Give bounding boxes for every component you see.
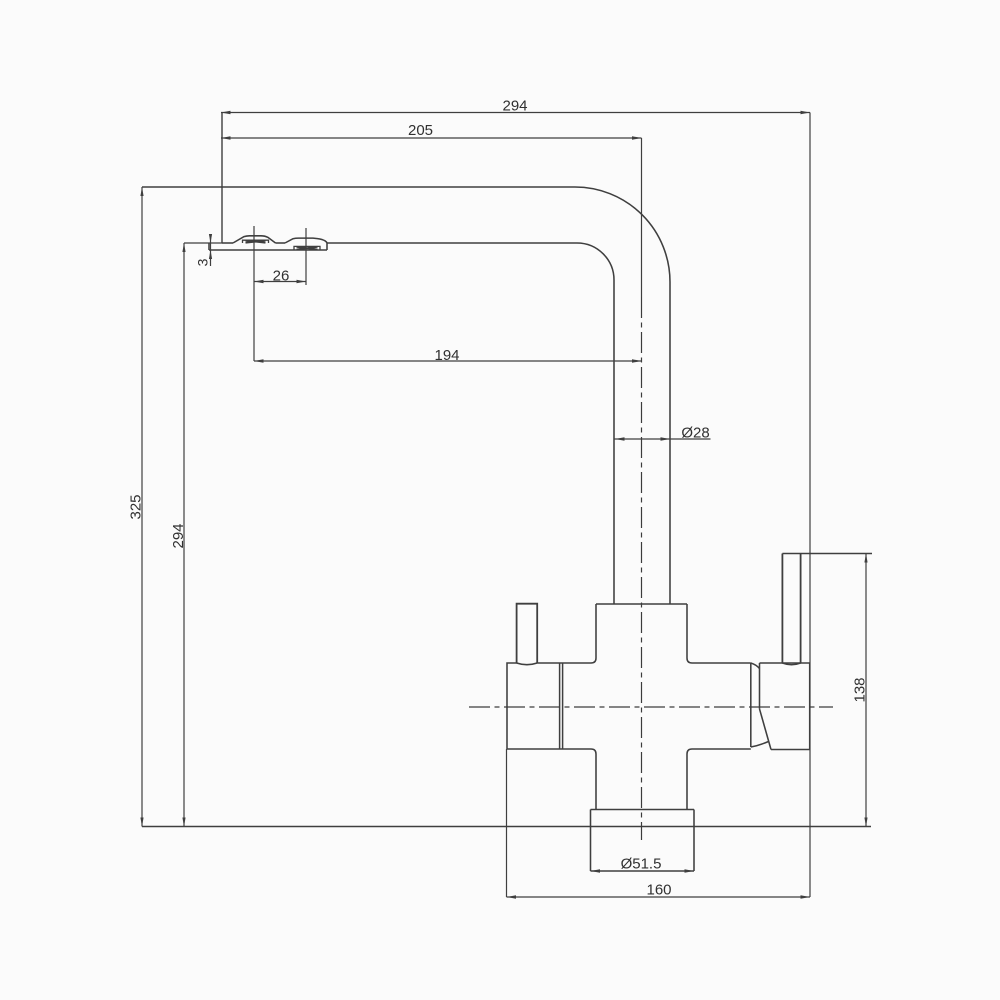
- right valve block bottom: [771, 749, 810, 751]
- aerator cross 1: [246, 240, 266, 242]
- dim 205 right extension solid: [641, 138, 643, 297]
- spout inner bend arc: [577, 243, 614, 604]
- svg-text:194: 194: [434, 347, 459, 364]
- right valve cone diagonal: [760, 709, 772, 750]
- dim 138 line: [865, 554, 867, 827]
- dim 194 line: [254, 360, 642, 362]
- svg-text:26: 26: [273, 268, 290, 285]
- right handle right edge: [800, 554, 802, 664]
- left lever handle: [517, 604, 538, 663]
- spout end plate top extension: [184, 242, 222, 244]
- body top edge: [596, 603, 687, 605]
- svg-text:Ø28: Ø28: [681, 425, 709, 442]
- right valve block top: [760, 662, 810, 664]
- arrows dim 138: [864, 554, 867, 563]
- dim dia28 line: [614, 438, 711, 440]
- right handle bottom cap: [782, 663, 800, 665]
- spout tip vertical edge: [221, 113, 223, 244]
- aerator dome 1: [233, 236, 276, 243]
- arrows dim 205: [221, 136, 231, 140]
- right valve block left edge: [759, 663, 761, 709]
- svg-text:160: 160: [646, 882, 671, 899]
- arrows dim 194: [254, 359, 264, 363]
- aerator slot 1: [243, 240, 269, 243]
- body cross left outline: [537, 604, 596, 663]
- aerator cross 2: [297, 247, 318, 250]
- dim 205 line: [221, 137, 642, 139]
- base right edge: [693, 810, 695, 872]
- spout tip bottom segment: [222, 242, 233, 244]
- body cross right outline: [687, 604, 751, 663]
- dim 26 line: [254, 281, 306, 283]
- spout inner bottom edge: [327, 242, 577, 244]
- right valve top jog curve: [751, 663, 760, 669]
- base bottom / dia51.5 dim line: [591, 870, 695, 872]
- arrows dim dia51.5: [591, 869, 601, 873]
- segment between domes: [276, 242, 286, 244]
- left lever bottom cap: [517, 663, 538, 665]
- arrows dim 160: [507, 895, 517, 899]
- spout end plate left edge: [208, 243, 210, 250]
- right valve block right edge: [809, 663, 811, 750]
- svg-text:294: 294: [502, 98, 527, 115]
- spout outer bend arc: [575, 187, 670, 604]
- counter line: [142, 826, 871, 828]
- right handle left edge: [781, 554, 783, 664]
- svg-text:325: 325: [128, 494, 145, 519]
- arrows dim 26: [254, 280, 264, 284]
- svg-text:294: 294: [170, 523, 187, 548]
- dim 325 line: [141, 187, 143, 827]
- left valve joint double line: [560, 663, 563, 749]
- body horizontal centerline dash-dot: [469, 706, 833, 708]
- left valve edge extension to 160: [506, 749, 508, 897]
- arrows dim 294 vertical: [182, 243, 185, 252]
- base left edge: [590, 810, 592, 872]
- svg-text:3: 3: [195, 258, 211, 266]
- dim 3 vertical line: [210, 237, 212, 267]
- arrows dim 294 top: [221, 111, 231, 115]
- dim 160 line: [507, 896, 811, 898]
- spout top edge: [142, 186, 575, 188]
- aerator dome 2: [285, 238, 327, 250]
- riser centerline dash-dot: [641, 297, 643, 840]
- dome2 centerline extension: [305, 228, 307, 285]
- dim 294 top line: [221, 112, 810, 114]
- dim 294 right extension: [809, 113, 811, 898]
- dim 294 vertical line: [183, 243, 185, 827]
- right valve cap vertical: [750, 663, 752, 747]
- arrows dim dia28: [615, 437, 625, 441]
- svg-text:205: 205: [408, 122, 433, 139]
- base top: [591, 809, 695, 811]
- right handle top edge + 138 extension: [782, 553, 872, 555]
- arrows dim 325: [140, 187, 143, 196]
- spout end plate bottom: [209, 249, 327, 251]
- dome1 centerline extension: [253, 226, 255, 361]
- arrows dim 3: [209, 234, 212, 243]
- svg-text:138: 138: [852, 677, 869, 702]
- svg-text:Ø51.5: Ø51.5: [621, 856, 662, 873]
- aerator slot 2: [294, 246, 320, 250]
- right valve cap bottom curve: [751, 742, 769, 748]
